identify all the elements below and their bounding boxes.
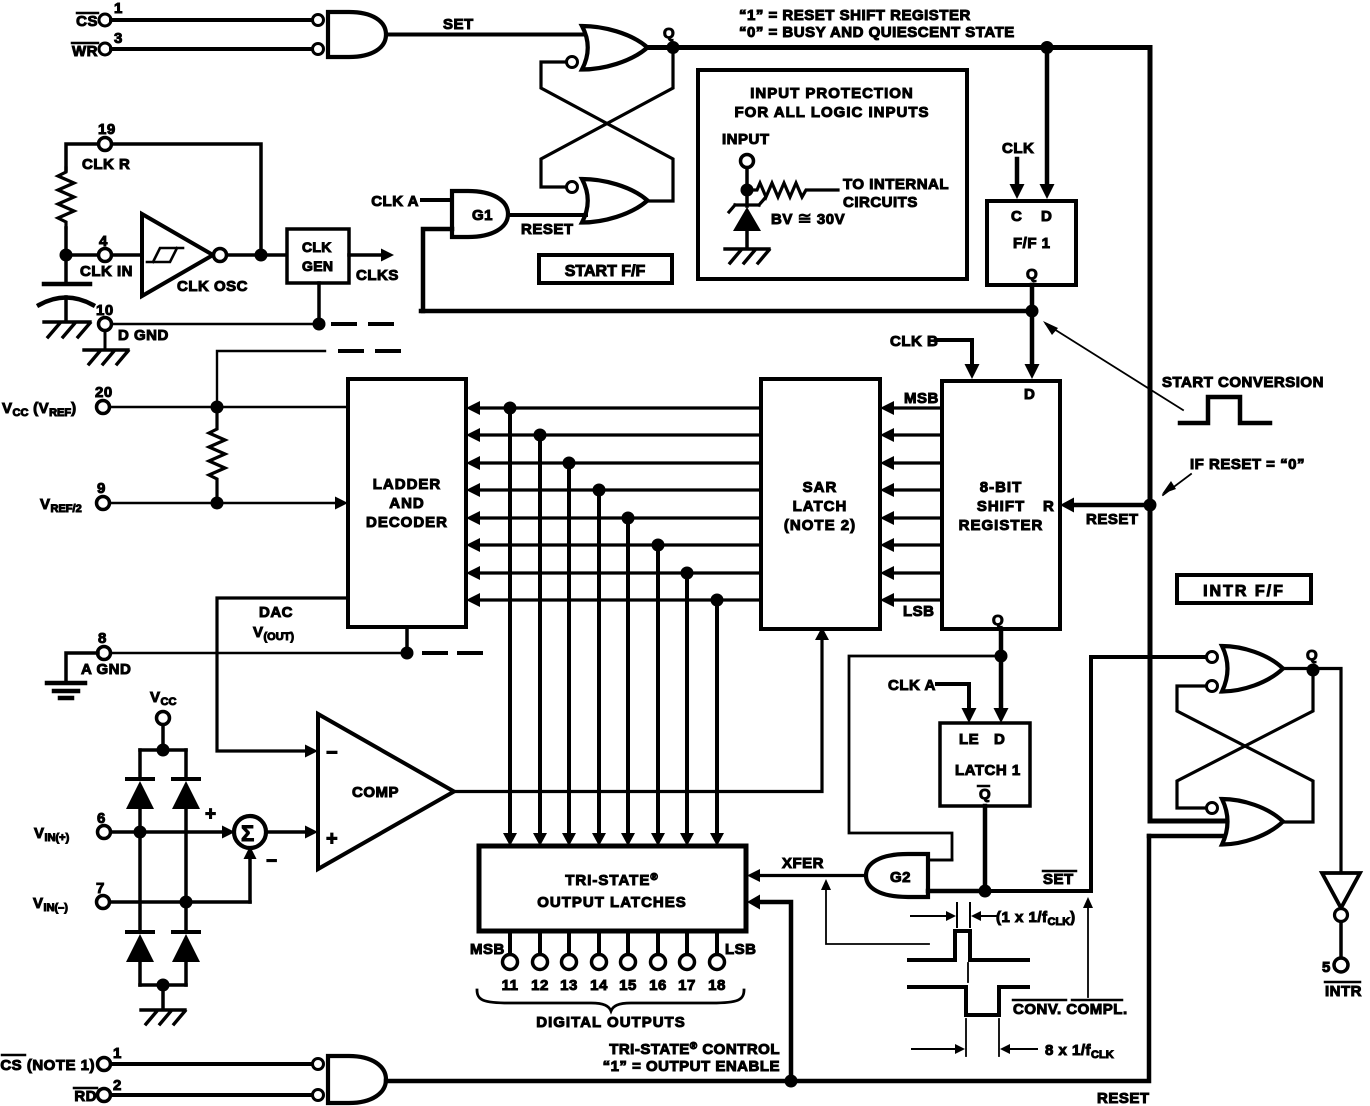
svg-text:18: 18 bbox=[708, 977, 726, 994]
svg-text:8: 8 bbox=[98, 630, 107, 647]
wire RD to output NAND bbox=[111, 1093, 312, 1097]
svg-text:MSB: MSB bbox=[470, 941, 505, 958]
svg-text:D: D bbox=[1041, 208, 1052, 225]
wire G2 input from loop bbox=[928, 859, 952, 862]
pin 17 output bbox=[678, 931, 696, 994]
box F/F 1 bbox=[987, 201, 1076, 285]
summing junction bbox=[234, 816, 266, 848]
arrow into comparator minus bbox=[305, 745, 318, 758]
pin 1 CS note1 input bbox=[0, 1045, 122, 1074]
wire latch1 Qbar down bbox=[983, 806, 988, 891]
wire dashed internal supply bbox=[217, 351, 399, 406]
svg-text:17: 17 bbox=[678, 977, 696, 994]
node VREF/2 junction bbox=[211, 497, 224, 510]
wire reset into INTR bottom gate bbox=[1149, 834, 1231, 839]
svg-text:D GND: D GND bbox=[118, 327, 169, 344]
svg-text:IF RESET = “0”: IF RESET = “0” bbox=[1190, 456, 1305, 473]
wire shift register bit4 to SAR bbox=[880, 483, 942, 497]
ground (protection) bbox=[725, 249, 769, 263]
inverter INTR output bbox=[1322, 873, 1360, 922]
svg-text:TO INTERNAL: TO INTERNAL bbox=[843, 176, 949, 193]
svg-text:RESET: RESET bbox=[1086, 511, 1139, 528]
box label INTR F/F bbox=[1177, 575, 1311, 603]
ground (A GND earth) bbox=[47, 683, 85, 698]
svg-text:FOR ALL LOGIC INPUTS: FOR ALL LOGIC INPUTS bbox=[735, 104, 930, 121]
wire SET to INTR flip flop bbox=[985, 657, 1206, 891]
annotation xfer pointer bbox=[821, 879, 929, 944]
schmitt inverter CLK OSC bbox=[142, 214, 248, 296]
svg-text:−: − bbox=[326, 742, 338, 764]
wire shift register bit5 to SAR bbox=[880, 511, 942, 525]
wire shift register D input bbox=[1025, 311, 1040, 379]
pin 18 output LSB bbox=[708, 931, 726, 994]
annotation 1 clock width bbox=[911, 903, 1076, 928]
node oscillator output junction bbox=[255, 249, 268, 262]
wire dashed internal ground bbox=[333, 322, 392, 326]
wire VIN+ to summer bbox=[111, 804, 235, 839]
waveform conversion complete bbox=[909, 987, 1028, 1015]
svg-text:A GND: A GND bbox=[81, 661, 131, 678]
wire CLK A into G1 bbox=[371, 193, 452, 210]
wire shift register bit7 to SAR bbox=[880, 566, 942, 580]
svg-text:SET: SET bbox=[443, 16, 474, 33]
wire ladder out to comparator minus bbox=[217, 598, 348, 751]
wire bit1 down to output latch bbox=[503, 402, 517, 847]
NOR gate start F/F top bbox=[567, 26, 648, 70]
wire Q line to right bbox=[648, 48, 1150, 822]
svg-text:AND: AND bbox=[389, 495, 425, 512]
pin 10 D GND bbox=[96, 302, 169, 349]
diode clamp lower right bbox=[172, 902, 200, 985]
node D GND junction bbox=[313, 318, 326, 331]
box LADDER AND DECODER bbox=[348, 379, 466, 627]
wire pin19 left down to resistor bbox=[66, 144, 98, 170]
svg-text:DIGITAL OUTPUTS: DIGITAL OUTPUTS bbox=[536, 1014, 685, 1031]
wire CLK B into shift register bbox=[890, 333, 980, 379]
svg-text:13: 13 bbox=[560, 977, 578, 994]
wire XFER from G2 to output latches bbox=[747, 855, 866, 882]
svg-text:CLK R: CLK R bbox=[82, 156, 130, 173]
pin 3 WR input bbox=[72, 30, 123, 60]
svg-text:9: 9 bbox=[97, 480, 106, 497]
AND gate G1 bbox=[452, 191, 508, 237]
wire CS to output NAND bbox=[111, 1062, 312, 1066]
comparator COMP bbox=[318, 714, 454, 869]
svg-text:CLK A: CLK A bbox=[888, 677, 936, 694]
svg-text:CS: CS bbox=[76, 13, 98, 30]
box LATCH 1 bbox=[940, 723, 1030, 806]
svg-text:2: 2 bbox=[113, 1077, 122, 1094]
NOR gate INTR top bbox=[1207, 646, 1284, 692]
wire G1 output RESET to NOR bbox=[508, 215, 586, 238]
svg-text:CLK IN: CLK IN bbox=[80, 263, 133, 280]
wire bit3 down to output latch bbox=[562, 457, 576, 847]
svg-text:12: 12 bbox=[531, 977, 549, 994]
node DAC junction bbox=[401, 647, 414, 660]
resistor CLK R bbox=[58, 168, 74, 228]
wire clamp top bar bbox=[140, 748, 186, 752]
wire tri-state control into latches bbox=[747, 895, 791, 1082]
svg-text:RD: RD bbox=[74, 1088, 97, 1105]
wire summer to comparator plus bbox=[266, 826, 318, 839]
wire CLK into F/F1 C bbox=[1002, 140, 1034, 199]
wire shift register Q output bbox=[999, 629, 1004, 656]
svg-text:RESET: RESET bbox=[521, 221, 574, 238]
pin 4 CLK IN bbox=[66, 233, 142, 280]
input protection box bbox=[698, 70, 967, 279]
wire output enable line to INTR reset bbox=[386, 836, 1149, 1081]
wire Q to inverter bbox=[1283, 669, 1341, 874]
box CLK GEN bbox=[287, 229, 349, 283]
brace digital outputs bbox=[477, 990, 744, 1011]
svg-text:5: 5 bbox=[1322, 959, 1331, 976]
svg-text:LADDER: LADDER bbox=[373, 476, 442, 493]
diode clamp upper right bbox=[172, 750, 200, 902]
pin 7 VIN(-) bbox=[33, 880, 110, 914]
svg-text:INPUT PROTECTION: INPUT PROTECTION bbox=[750, 85, 914, 102]
node VCC junction bbox=[211, 401, 224, 414]
wire shift register MSB to SAR bbox=[880, 390, 942, 415]
wire A GND to ground bbox=[66, 653, 98, 682]
node G2 set junction bbox=[979, 885, 992, 898]
text CONV COMPL bbox=[1013, 1000, 1128, 1018]
wire G1 second input from F/F1 Q line bbox=[423, 229, 452, 311]
svg-text:D: D bbox=[1024, 386, 1035, 403]
svg-text:START F/F: START F/F bbox=[565, 263, 646, 280]
wire SAR bit1 to ladder (MSB) bbox=[466, 401, 761, 415]
text TRI-STATE CONTROL bbox=[603, 1041, 780, 1075]
node INPUT bbox=[722, 131, 770, 197]
pin 12 output bbox=[531, 931, 549, 994]
svg-text:CLK: CLK bbox=[302, 239, 332, 255]
box TRI-STATE OUTPUT LATCHES bbox=[479, 846, 746, 931]
pin 15 output bbox=[619, 931, 637, 994]
svg-text:Q: Q bbox=[1306, 647, 1318, 664]
AND gate G2 (left facing) bbox=[866, 854, 928, 897]
svg-text:15: 15 bbox=[619, 977, 637, 994]
wire SAR bit7 to ladder bbox=[466, 566, 761, 580]
svg-text:1: 1 bbox=[113, 1045, 122, 1062]
box SAR LATCH bbox=[761, 379, 880, 629]
svg-text:F/F 1: F/F 1 bbox=[1013, 235, 1051, 252]
svg-text:C: C bbox=[1011, 208, 1022, 225]
svg-text:20: 20 bbox=[95, 384, 113, 401]
svg-text:3: 3 bbox=[114, 30, 123, 47]
pin 13 output bbox=[560, 931, 578, 994]
box label START F/F bbox=[539, 255, 672, 283]
svg-text:D: D bbox=[994, 731, 1005, 748]
wire DAC V(OUT) stub bbox=[253, 604, 407, 653]
svg-text:−: − bbox=[266, 851, 277, 872]
wire G2 input from set line bbox=[928, 889, 985, 894]
wire INTR cross-coupling bbox=[1177, 675, 1313, 822]
wire latch1 D input bbox=[994, 656, 1009, 723]
note text reset states bbox=[739, 7, 1015, 41]
svg-text:+: + bbox=[205, 804, 216, 825]
wire CLK A into latch1 LE bbox=[888, 677, 977, 723]
svg-text:DECODER: DECODER bbox=[366, 514, 448, 531]
wire RESET into shift register R bbox=[1060, 498, 1150, 529]
zener diode BV 30V bbox=[729, 190, 845, 248]
svg-text:+: + bbox=[326, 828, 338, 850]
svg-text:TRI-STATE®: TRI-STATE® bbox=[565, 872, 658, 889]
wire F/F1 Q horizontal line bbox=[421, 309, 1032, 314]
annotation 8 clock width bbox=[912, 1019, 1114, 1061]
wire shift Q to latch1 loop bbox=[849, 656, 1001, 860]
svg-text:SET: SET bbox=[1043, 871, 1074, 888]
wire comparator output to SAR bbox=[454, 638, 822, 792]
svg-text:CS (NOTE 1): CS (NOTE 1) bbox=[0, 1057, 95, 1074]
wire shift register bit3 to SAR bbox=[880, 456, 942, 470]
pin 1 CS input bbox=[76, 0, 123, 30]
svg-text:CLK B: CLK B bbox=[890, 333, 938, 350]
wire main line into INTR bottom gate bbox=[1150, 815, 1234, 821]
NAND gate (CS/WR set gate) bbox=[313, 12, 387, 57]
wire clamp bottom bar bbox=[140, 983, 186, 987]
wire shift register LSB to SAR bbox=[880, 593, 942, 620]
wire shift register bit6 to SAR bbox=[880, 538, 942, 552]
resistor to internal circuits bbox=[747, 183, 838, 197]
wire SAR bit4 to ladder bbox=[466, 483, 761, 497]
svg-text:R: R bbox=[1043, 498, 1054, 515]
wire VIN- to summer bottom bbox=[110, 846, 277, 909]
node CLK IN junction bbox=[60, 249, 73, 262]
pin 5 INTR bbox=[1322, 922, 1362, 1000]
svg-text:Σ: Σ bbox=[241, 821, 254, 846]
svg-text:14: 14 bbox=[590, 977, 608, 994]
svg-text:“0” = BUSY AND QUIESCENT STATE: “0” = BUSY AND QUIESCENT STATE bbox=[739, 24, 1015, 41]
pin 14 output bbox=[590, 931, 608, 994]
NOR gate start F/F bottom bbox=[567, 179, 648, 223]
pin 19 CLK R bbox=[82, 121, 130, 173]
ground (capacitor) bbox=[44, 322, 90, 337]
svg-text:“1” = OUTPUT ENABLE: “1” = OUTPUT ENABLE bbox=[603, 1058, 780, 1075]
pin 6 VIN(+) bbox=[34, 810, 111, 844]
svg-text:GEN: GEN bbox=[302, 258, 333, 274]
diode clamp lower left bbox=[126, 832, 154, 985]
resistor VREF divider bbox=[209, 407, 225, 503]
wire pin10 to CLK GEN bottom bbox=[112, 323, 319, 325]
wire start F/F cross-coupling bbox=[541, 53, 673, 201]
waveform xfer pulse bbox=[909, 931, 1028, 960]
wire waveform connector bbox=[967, 963, 969, 982]
node junction on Q line above F/F1 bbox=[1041, 41, 1054, 54]
node clamp bottom junction bbox=[157, 979, 170, 992]
wire shift register bit2 to SAR bbox=[880, 428, 942, 442]
wire VCC to ladder bbox=[110, 406, 348, 409]
svg-text:1: 1 bbox=[114, 0, 123, 17]
svg-text:CLK OSC: CLK OSC bbox=[177, 278, 248, 295]
svg-text:LATCH: LATCH bbox=[793, 498, 848, 515]
pin 2 RD input bbox=[74, 1077, 122, 1105]
wire SET bbox=[386, 16, 590, 35]
svg-text:REGISTER: REGISTER bbox=[959, 517, 1044, 534]
svg-text:INTR F/F: INTR F/F bbox=[1203, 583, 1285, 600]
svg-text:Q: Q bbox=[663, 25, 675, 42]
NAND gate output enable bbox=[313, 1056, 387, 1103]
wire if-reset pointer bbox=[1162, 474, 1191, 495]
wire SAR bit8 to ladder (LSB) bbox=[466, 593, 761, 607]
wire bit8 down to output latch bbox=[710, 594, 724, 847]
svg-text:CONV. COMPL.: CONV. COMPL. bbox=[1013, 1001, 1128, 1018]
wire CLKS output arrow bbox=[349, 249, 399, 285]
svg-text:XFER: XFER bbox=[782, 855, 824, 872]
pin 8 A GND bbox=[81, 630, 131, 678]
svg-text:“1” = RESET SHIFT REGISTER: “1” = RESET SHIFT REGISTER bbox=[739, 7, 971, 24]
wire SAR bit5 to ladder bbox=[466, 511, 761, 525]
svg-text:WR: WR bbox=[72, 43, 98, 60]
capacitor CLK IN bbox=[39, 284, 93, 321]
svg-text:LSB: LSB bbox=[903, 603, 935, 620]
wire CLK GEN bottom to D GND line bbox=[317, 283, 321, 324]
NOR gate INTR bottom bbox=[1207, 799, 1284, 845]
svg-text:LATCH 1: LATCH 1 bbox=[955, 762, 1021, 779]
wire WR to NAND bbox=[111, 47, 312, 51]
wire SAR bit3 to ladder bbox=[466, 456, 761, 470]
svg-text:BV ≅ 30V: BV ≅ 30V bbox=[771, 209, 845, 228]
node VCC clamp bbox=[150, 689, 176, 757]
svg-text:G1: G1 bbox=[472, 207, 493, 224]
node Q of INTR F/F bbox=[1306, 647, 1320, 677]
wire resistor to CLK IN node bbox=[64, 228, 68, 284]
svg-text:11: 11 bbox=[502, 977, 519, 994]
svg-text:CLK: CLK bbox=[1002, 140, 1034, 157]
svg-text:MSB: MSB bbox=[904, 390, 939, 407]
node RESET junction on main line bbox=[1144, 499, 1157, 512]
svg-text:Q: Q bbox=[992, 612, 1004, 629]
wire VREF/2 to ladder arrow bbox=[110, 497, 348, 510]
text TO INTERNAL CIRCUITS bbox=[843, 176, 949, 211]
svg-text:INTR: INTR bbox=[1325, 983, 1362, 1000]
ground (D GND) bbox=[84, 350, 128, 364]
svg-text:LE: LE bbox=[959, 731, 979, 748]
svg-text:START CONVERSION: START CONVERSION bbox=[1162, 374, 1324, 391]
wire start conversion pointer bbox=[1043, 321, 1183, 410]
svg-text:(NOTE 2): (NOTE 2) bbox=[784, 517, 856, 534]
node Q of start F/F bbox=[663, 25, 680, 54]
ground (clamp) bbox=[141, 1010, 185, 1024]
svg-text:RESET: RESET bbox=[1097, 1090, 1150, 1106]
pin 11 output MSB bbox=[502, 931, 519, 994]
wire to ground clamp bbox=[161, 985, 165, 1009]
box 8-BIT SHIFT REGISTER bbox=[942, 381, 1060, 629]
wire SAR bit2 to ladder bbox=[466, 428, 761, 442]
svg-text:16: 16 bbox=[649, 977, 667, 994]
pin 9 VREF/2 bbox=[40, 480, 110, 515]
wire F/F1 Q output bbox=[1030, 285, 1035, 311]
svg-text:Q: Q bbox=[979, 786, 991, 803]
svg-text:Q: Q bbox=[1026, 266, 1038, 283]
svg-text:INPUT: INPUT bbox=[722, 131, 770, 148]
diode clamp upper left bbox=[126, 750, 154, 832]
start conversion pulse waveform bbox=[1180, 397, 1270, 423]
wire bit5 down to output latch bbox=[621, 512, 635, 847]
node tri-state control junction bbox=[785, 1075, 798, 1088]
wire SAR bit6 to ladder bbox=[466, 538, 761, 552]
wire bit2 down to output latch bbox=[533, 429, 547, 847]
node start conversion junction bbox=[1026, 305, 1039, 318]
svg-text:CIRCUITS: CIRCUITS bbox=[843, 194, 918, 211]
wire A GND to DAC node bbox=[111, 652, 407, 655]
wire CS to NAND bbox=[111, 18, 312, 22]
svg-text:COMP: COMP bbox=[352, 784, 399, 801]
annotation conv-compl to set arrow bbox=[1083, 897, 1093, 997]
svg-text:G2: G2 bbox=[890, 869, 911, 886]
wire dashed DAC continuation bbox=[424, 651, 481, 655]
node shift Q junction bbox=[995, 650, 1008, 663]
pin 20 VCC (VREF) bbox=[2, 384, 113, 419]
wire F/F1 D input from Q line bbox=[1040, 47, 1055, 199]
wire bit4 down to output latch bbox=[592, 484, 606, 847]
arrow into SAR bottom bbox=[815, 627, 829, 640]
svg-text:DAC: DAC bbox=[259, 604, 293, 621]
wire oscillator output to CLK GEN bbox=[227, 253, 287, 257]
wire bit7 down to output latch bbox=[680, 567, 694, 847]
svg-text:OUTPUT LATCHES: OUTPUT LATCHES bbox=[537, 894, 687, 911]
svg-text:19: 19 bbox=[98, 121, 116, 138]
svg-text:LSB: LSB bbox=[725, 941, 757, 958]
svg-text:CLK A: CLK A bbox=[371, 193, 419, 210]
wire pin19 to oscillator output bbox=[112, 144, 261, 250]
svg-text:SAR: SAR bbox=[803, 479, 838, 496]
pin 16 output bbox=[649, 931, 667, 994]
wire bit6 down to output latch bbox=[651, 539, 665, 847]
svg-text:SHIFT: SHIFT bbox=[977, 498, 1025, 515]
svg-text:CLKS: CLKS bbox=[356, 267, 399, 284]
svg-text:8-BIT: 8-BIT bbox=[980, 479, 1023, 496]
